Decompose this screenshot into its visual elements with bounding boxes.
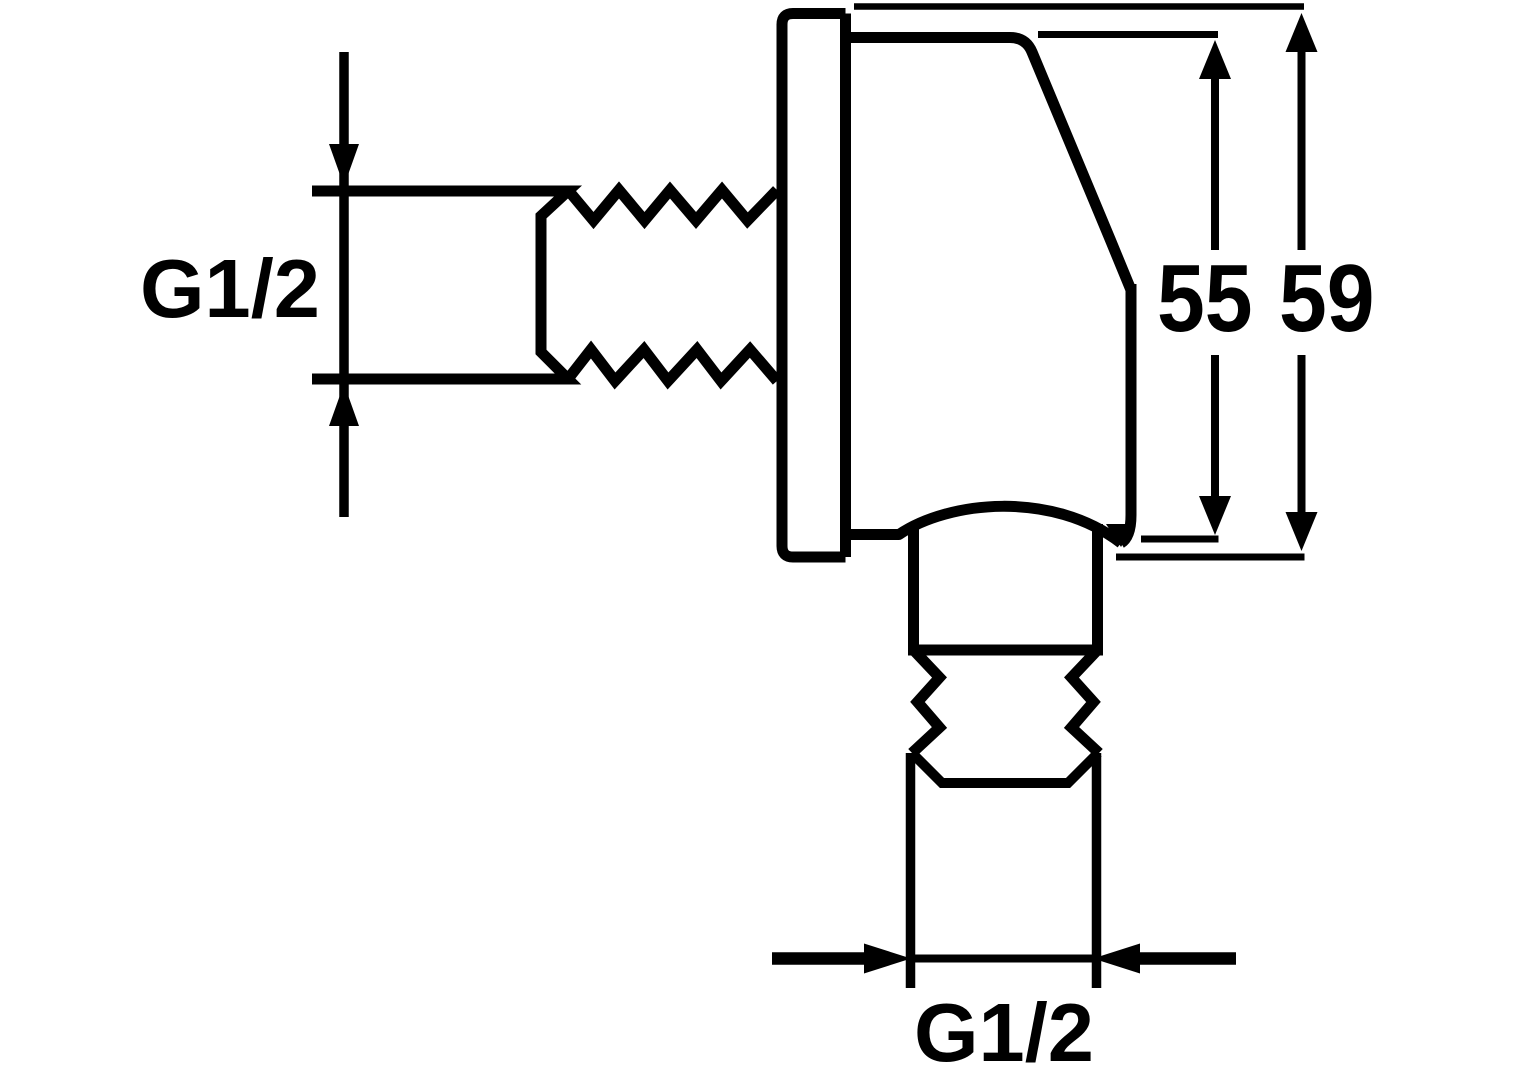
wall plate (rounded rectangle) [782, 14, 846, 558]
dim 55 arrowhead up [1199, 40, 1231, 79]
body top edge and sloped shoulder [846, 38, 1132, 291]
dim 55 top extension line [1038, 31, 1218, 38]
label G1/2 inlet [140, 247, 320, 330]
outlet tube lower left edge [906, 753, 916, 988]
saddle/right-edge cusp fill [1106, 524, 1135, 547]
left dimension arrowhead up [329, 384, 359, 426]
inlet nipple body outline (top edge, chamfered end face, bottom edge) [312, 191, 568, 379]
dim 55 vertical line upper [1211, 78, 1219, 250]
dim 55 vertical line lower [1211, 355, 1219, 497]
dim 59 bottom extension line [1116, 554, 1305, 561]
inlet thread zigzag top [568, 190, 777, 221]
body bottom line and saddle arc [846, 506, 1122, 543]
bottom dimension arrowhead right-pointing [864, 944, 911, 974]
outlet thread zigzag right [1072, 650, 1100, 753]
outlet thread zigzag left [912, 650, 940, 753]
inlet thread zigzag bottom [568, 350, 777, 382]
dim 59 vertical line lower [1298, 355, 1306, 513]
bottom dimension thin connector [911, 955, 1093, 963]
body right edge with bottom hook [1121, 284, 1131, 543]
left dimension arrowhead down [329, 144, 359, 186]
bottom dimension arrowhead left-pointing [1093, 944, 1140, 974]
bottom dimension line left segment [772, 952, 866, 965]
dim 59 arrowhead down [1286, 512, 1318, 551]
outlet thread start line [908, 645, 1103, 656]
dim 59 top extension line [854, 3, 1304, 10]
dim 55 bottom extension line [1141, 536, 1219, 543]
left dimension line (vertical) [339, 52, 349, 517]
label G1/2 outlet [914, 991, 1094, 1074]
bottom dimension line right segment [1140, 952, 1236, 965]
outlet thread end chamfer [912, 753, 1098, 783]
outlet tube upper right edge [1092, 524, 1103, 650]
dim 59 vertical line upper [1298, 50, 1306, 250]
outlet tube upper left edge [908, 523, 919, 650]
dim 59 arrowhead up [1286, 13, 1318, 52]
outlet tube lower right edge [1092, 753, 1102, 988]
dim 55 arrowhead down [1199, 496, 1231, 535]
label 55 [1157, 252, 1253, 348]
label 59 [1279, 252, 1375, 348]
